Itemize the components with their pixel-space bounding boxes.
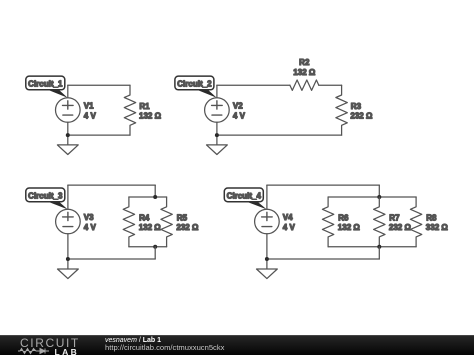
wire top rail c3 — [68, 184, 155, 186]
svg-text:Circuit_3: Circuit_3 — [28, 191, 63, 200]
svg-text:332 Ω: 332 Ω — [426, 223, 449, 232]
svg-text:R2: R2 — [299, 58, 310, 67]
svg-text:R6: R6 — [338, 213, 349, 222]
wire V3 top stem — [67, 185, 69, 209]
svg-text:V3: V3 — [84, 213, 94, 222]
junction node c3 bottom bar — [153, 245, 157, 249]
label callout Circuit_2 — [175, 76, 217, 98]
wire c4 top bar — [328, 196, 416, 198]
wire c3 feed drop — [154, 185, 156, 197]
svg-text:Circuit_1: Circuit_1 — [28, 79, 63, 88]
url text — [105, 343, 224, 352]
svg-text:R8: R8 — [426, 213, 437, 222]
svg-text:V4: V4 — [283, 213, 293, 222]
wire top rail c1 — [68, 84, 130, 86]
svg-text:132 Ω: 132 Ω — [293, 68, 316, 77]
wire c4 feed drop — [378, 185, 380, 197]
ground c3 — [58, 269, 79, 279]
wire V2 top stem — [216, 85, 218, 98]
label callout Circuit_1 — [26, 76, 68, 98]
svg-text:R4: R4 — [139, 213, 150, 222]
logo resistor-diode glyph — [18, 347, 58, 355]
wire c3 bottom bar — [129, 246, 167, 248]
junction node c3 top bar — [153, 195, 157, 199]
svg-text:Circuit_2: Circuit_2 — [177, 79, 212, 88]
circuit 3 group — [26, 185, 199, 279]
ground c1 — [57, 145, 78, 155]
wire c4 bottom bar — [328, 246, 416, 248]
svg-text:V1: V1 — [84, 102, 94, 111]
junction node c4 top bar — [377, 195, 381, 199]
svg-text:R5: R5 — [177, 213, 188, 222]
wire V1 bottom stem — [67, 122, 69, 145]
svg-text:4 V: 4 V — [283, 223, 296, 232]
wire V4 bottom stem — [266, 234, 268, 269]
label callout Circuit_4 — [224, 188, 266, 209]
CircuitLab logo wordmark — [20, 336, 80, 350]
wire c3 drain drop — [154, 247, 156, 259]
wire V1 top stem — [67, 85, 69, 98]
circuit 2 group — [175, 58, 373, 155]
svg-text:R3: R3 — [351, 102, 362, 111]
svg-text:V2: V2 — [233, 102, 243, 111]
ground c2 — [207, 145, 228, 155]
wire V4 top stem — [266, 185, 268, 209]
voltage source V2 — [205, 98, 230, 123]
resistor R3 — [336, 85, 347, 135]
voltage source V4 — [255, 209, 280, 234]
resistor R1 — [124, 85, 135, 135]
wire top rail c2 left — [217, 84, 290, 86]
svg-text:132 Ω: 132 Ω — [338, 223, 361, 232]
junction node c4 bottom bar — [377, 245, 381, 249]
junction node c1 — [66, 133, 70, 137]
svg-text:4 V: 4 V — [233, 111, 246, 120]
wire top rail c2 right — [319, 84, 342, 86]
wire V2 bottom stem — [216, 122, 218, 145]
wire bottom rail c2 — [217, 134, 342, 136]
resistor R7 — [374, 197, 385, 247]
svg-text:R1: R1 — [139, 102, 150, 111]
ground c4 — [257, 269, 278, 279]
voltage source V1 — [56, 98, 81, 123]
label callout Circuit_3 — [26, 188, 68, 209]
svg-text:R7: R7 — [389, 213, 400, 222]
resistor R8 — [410, 197, 421, 247]
wire bottom rail c1 — [68, 134, 130, 136]
footer bar — [0, 335, 474, 355]
wire bottom rail c4 — [267, 258, 379, 260]
voltage source V3 — [56, 209, 81, 234]
circuit 4 group — [224, 185, 448, 279]
junction node c3 — [66, 257, 70, 261]
wire c4 drain drop — [378, 247, 380, 259]
resistor R2 — [290, 80, 319, 90]
circuit 1 group — [26, 76, 162, 154]
wire V3 bottom stem — [67, 234, 69, 269]
wire top rail c4 — [267, 184, 379, 186]
wire c3 top bar — [129, 196, 167, 198]
svg-text:232 Ω: 232 Ω — [176, 223, 199, 232]
resistor R6 — [322, 197, 333, 247]
svg-text:132 Ω: 132 Ω — [139, 223, 162, 232]
junction node c4 — [265, 257, 269, 261]
wire bottom rail c3 — [68, 258, 155, 260]
svg-text:Circuit_4: Circuit_4 — [227, 191, 262, 200]
junction node c2 — [215, 133, 219, 137]
svg-text:4 V: 4 V — [84, 223, 97, 232]
resistor R4 — [123, 197, 134, 247]
svg-text:232 Ω: 232 Ω — [389, 223, 412, 232]
credits text — [105, 337, 161, 344]
svg-text:132 Ω: 132 Ω — [139, 111, 162, 120]
svg-text:232 Ω: 232 Ω — [350, 111, 373, 120]
svg-text:4 V: 4 V — [84, 111, 97, 120]
resistor R5 — [161, 197, 172, 247]
